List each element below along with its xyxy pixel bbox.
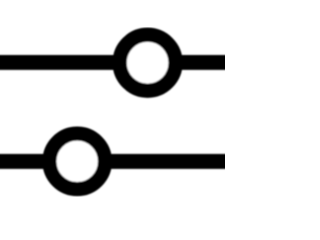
slider knob 1 (top circle, right of center) (120, 35, 176, 91)
slider track 1 (top horizontal line) (0, 55, 228, 70)
slider track 2 (bottom horizontal line) (0, 154, 228, 169)
slider knob 2 (bottom circle, left of center) (49, 134, 105, 190)
